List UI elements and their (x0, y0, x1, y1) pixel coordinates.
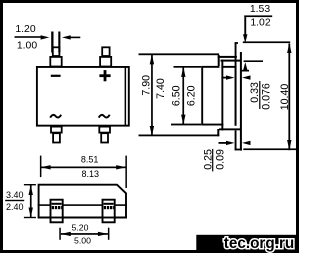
svg-text:0.076: 0.076 (261, 83, 273, 110)
svg-text:2.40: 2.40 (6, 202, 24, 212)
top view: AC tilde left (50, 115, 61, 118)
dimension 8.51/8.13 (front view overall width) (40, 154, 127, 188)
front view: lead tab right (103, 200, 115, 223)
front view: body outline with chamfer (39, 185, 126, 218)
side view: bottom extension line (7.40 tick) (139, 135, 220, 137)
dimension 0.25/0.09 (standoff) (202, 141, 250, 172)
svg-text:6.20: 6.20 (186, 85, 198, 106)
top view: chamfer line (right inner) (125, 66, 127, 126)
dimension 5.20/5.00 (lead pitch) (59, 222, 109, 245)
side view: top lead lower edge (221, 60, 242, 62)
side view: top lead upper edge (218, 56, 237, 58)
side view: lead tip cap (235, 42, 238, 44)
top view: pin 2 (bottom-left) (51, 127, 62, 143)
svg-text:1.53: 1.53 (250, 4, 270, 15)
dimension 1.20/1.00 (pin width, top view) (15, 24, 81, 52)
top view: minus mark (51, 75, 61, 77)
dimension 1.53/1.02 (lead foot) (242, 4, 273, 72)
side view: top tick (1.53 / 10.40) (243, 41, 290, 43)
svg-text:0.09: 0.09 (214, 149, 226, 170)
top view: AC tilde right (99, 115, 110, 118)
top view: plus mark (99, 70, 110, 81)
svg-text:5.20: 5.20 (72, 222, 89, 232)
svg-text:8.13: 8.13 (82, 169, 100, 179)
side view: seating plane tick (bottom, 10.40/0.25) (243, 148, 296, 150)
side view: body inner line (221, 60, 223, 131)
dimension 6.50/6.20 (side view, body height) (171, 66, 202, 125)
front view: body bottom edge over leads (38, 217, 127, 219)
side view: lead face line D (240, 52, 242, 151)
front view: lead tab left (51, 200, 63, 223)
dimension 0.33/0.076 (lead thickness) (221, 75, 272, 109)
side view: lead foot bottom cap (235, 149, 242, 151)
side view: bottom lead bend inner edge (219, 128, 241, 130)
svg-text:tec.org.ru: tec.org.ru (224, 235, 295, 252)
svg-text:1.00: 1.00 (17, 40, 37, 51)
logo tec.org.ru (196, 235, 299, 253)
svg-text:5.00: 5.00 (74, 235, 91, 245)
side view: tick 1.02 (244, 60, 263, 62)
svg-text:3.40: 3.40 (6, 190, 24, 200)
side view: body outline (202, 66, 235, 126)
side view: lead face line C lower (foot) (235, 130, 237, 150)
svg-text:6.50: 6.50 (171, 85, 183, 106)
top view: pin 1 (top-left, minus) (50, 47, 61, 66)
top view: pin 4 (top-right, plus) (100, 47, 111, 66)
top view: body outline (37, 67, 129, 126)
svg-text:7.90: 7.90 (140, 75, 152, 96)
side view: top extension line (7.90 tick) (139, 53, 220, 55)
svg-text:8.51: 8.51 (81, 154, 99, 164)
front view: parting line (38, 204, 127, 206)
side view: top lead bend outer edge (218, 55, 220, 67)
dimension 7.90/7.40 (side view, lead span) (140, 54, 166, 136)
svg-text:1.20: 1.20 (15, 24, 35, 35)
side view: bottom lead bend outer edge (217, 129, 219, 136)
dimension 10.40 (overall height) (279, 43, 292, 150)
svg-text:1.02: 1.02 (250, 18, 270, 29)
top view: pin 3 (bottom-right) (99, 127, 110, 143)
side view: lead face line C upper (235, 43, 237, 126)
svg-text:7.40: 7.40 (155, 78, 167, 99)
dimension 3.40/2.40 (front view height) (5, 184, 36, 218)
